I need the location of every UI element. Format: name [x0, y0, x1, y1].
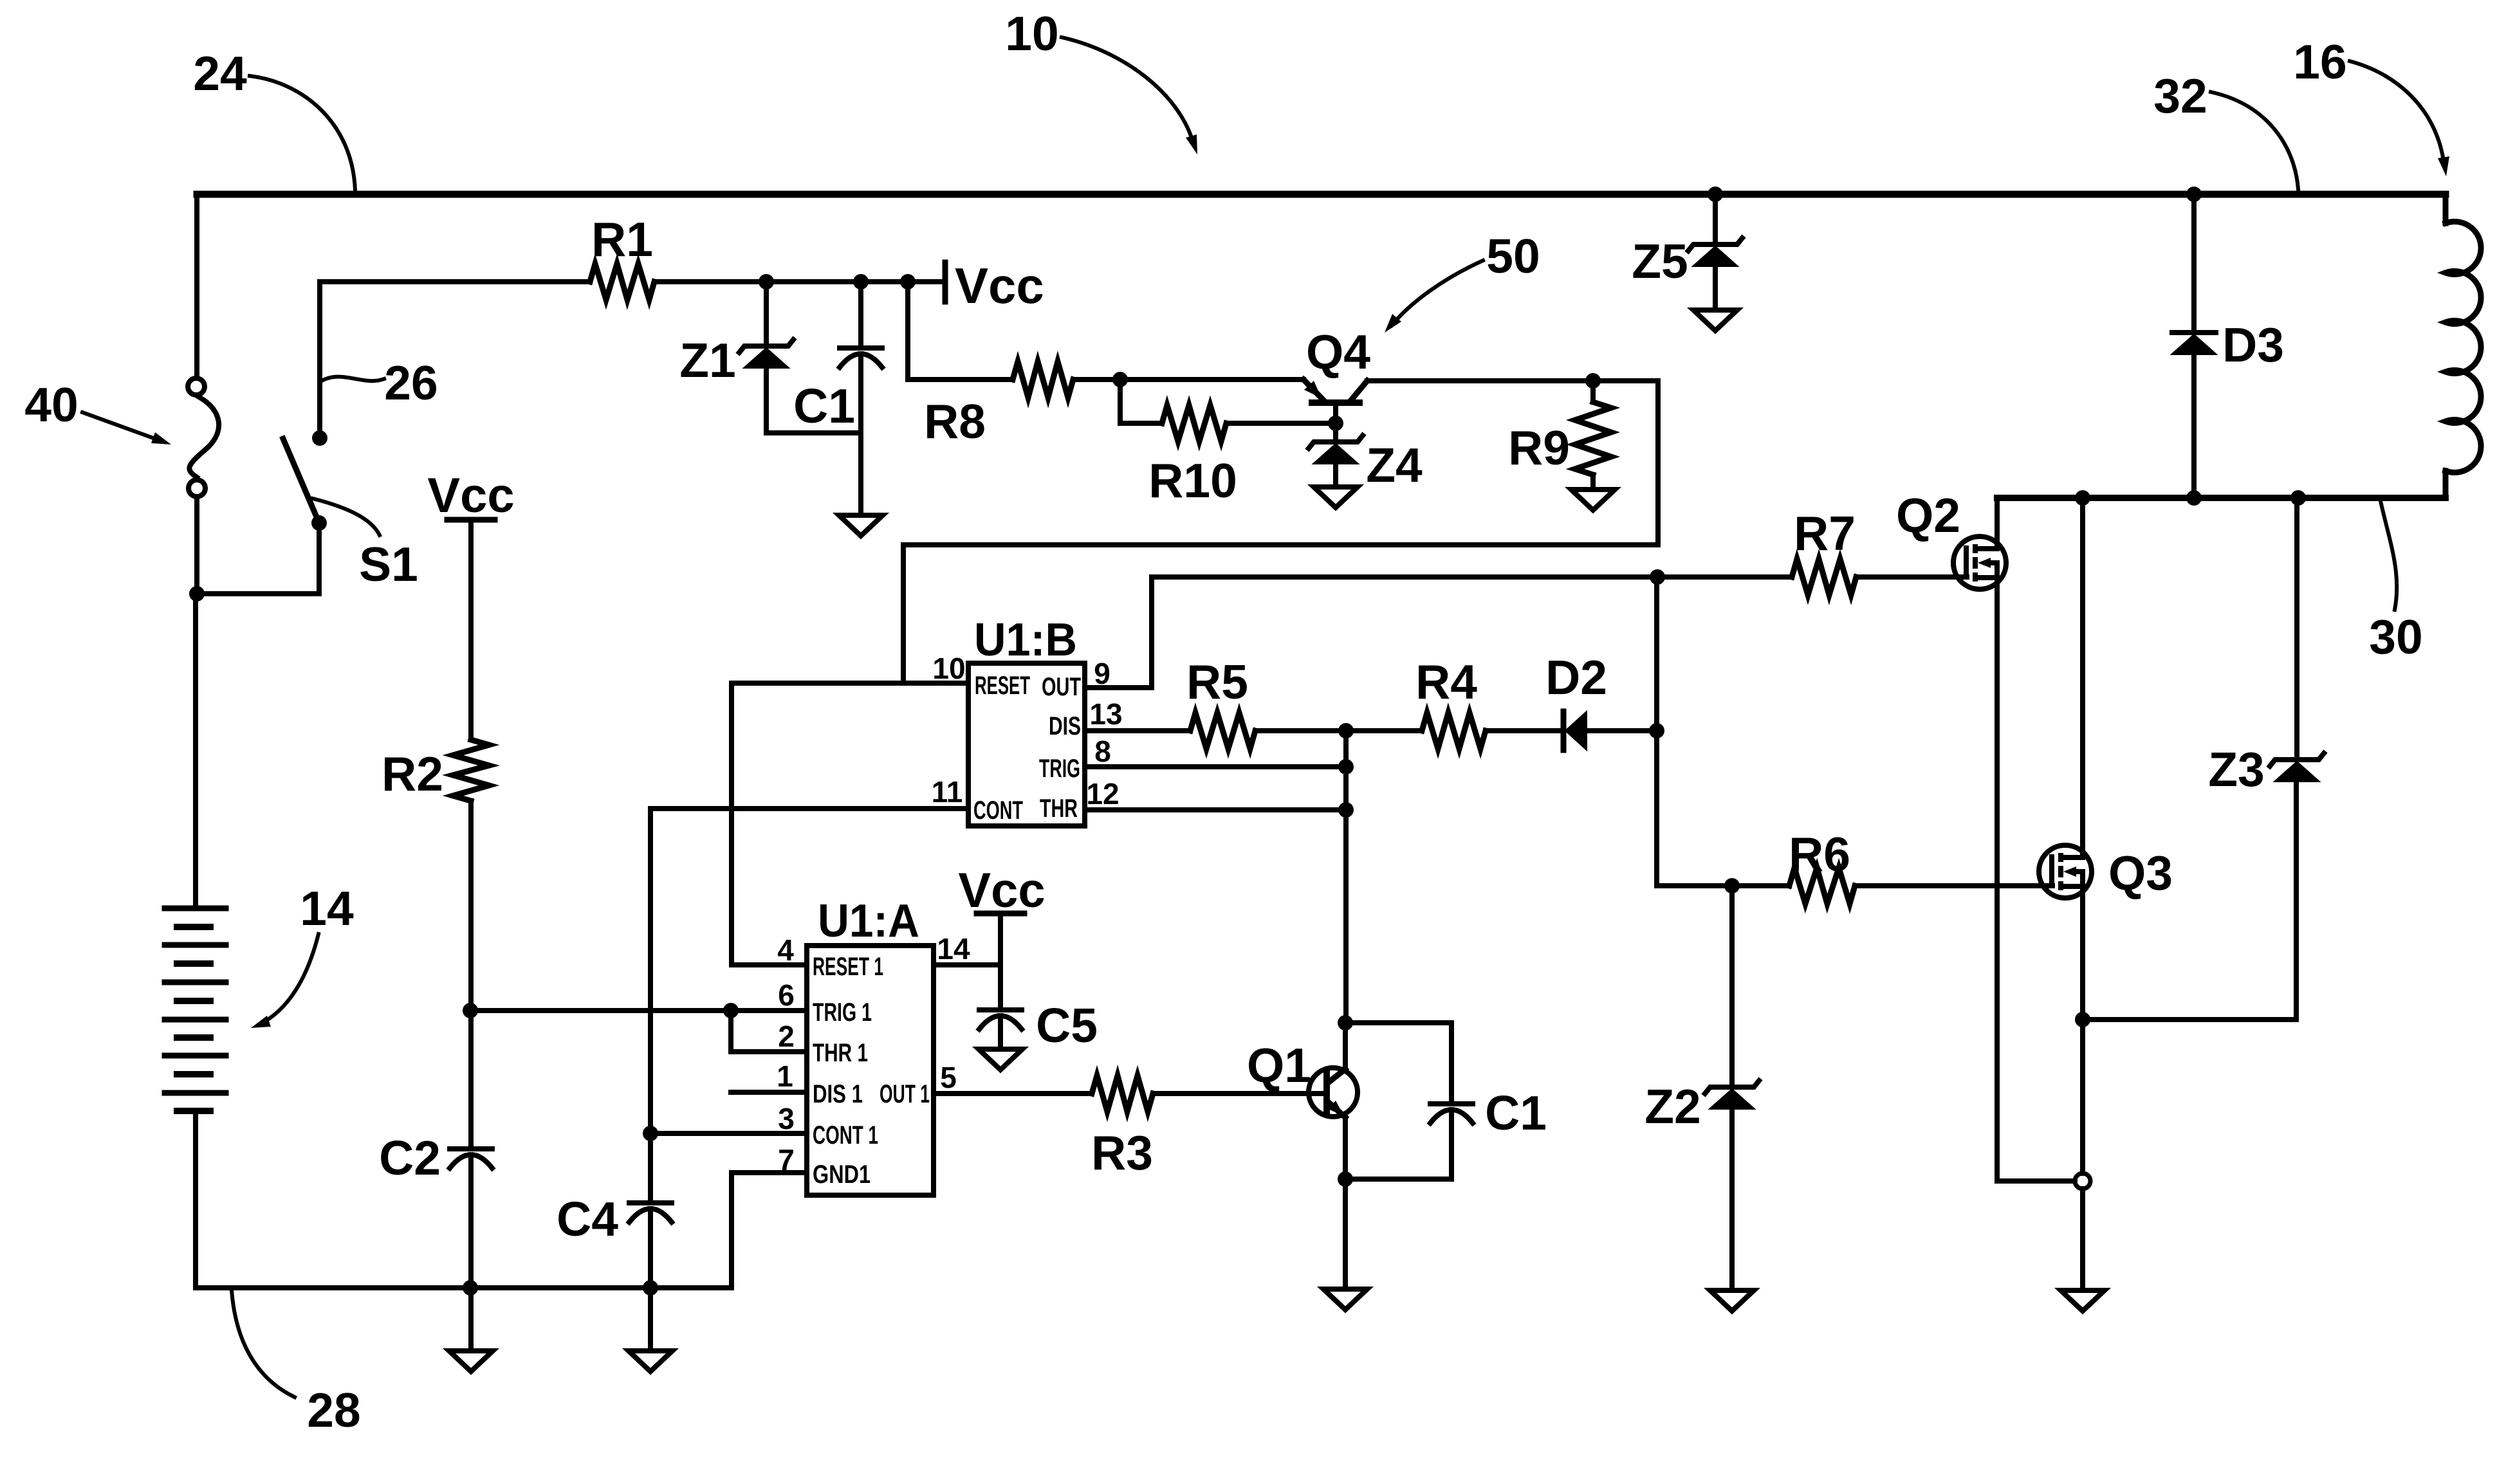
svg-text:RESET 1: RESET 1: [813, 953, 883, 981]
capacitor C1 (Q1): [1430, 1101, 1473, 1106]
svg-text:R7: R7: [1794, 506, 1856, 560]
resistor R7: [1792, 559, 1856, 595]
wire to capacitor C1 right: [1345, 1023, 1451, 1104]
leader 24: [250, 76, 355, 190]
svg-text:CONT 1: CONT 1: [813, 1121, 878, 1150]
node Q1 emitter junction: [1338, 1171, 1353, 1187]
wire to R4: [1346, 728, 1422, 733]
wire C2 to bottom rail: [468, 1155, 474, 1288]
wire Q1 emitter to ground: [1343, 1179, 1348, 1289]
wire C1 bottom to emitter: [1345, 1110, 1451, 1179]
wire switch up to R1 row node 26: [320, 282, 590, 438]
node R10 tap: [1112, 372, 1128, 387]
node D3 bottom on rail: [2186, 490, 2202, 506]
svg-text:Z4: Z4: [1366, 438, 1423, 492]
svg-text:R2: R2: [382, 747, 443, 801]
svg-text:2: 2: [778, 1020, 795, 1053]
resistor R2: [453, 740, 489, 801]
svg-text:Q2: Q2: [1896, 488, 1960, 542]
svg-text:D2: D2: [1545, 650, 1607, 704]
switch S1 blade: [283, 439, 319, 523]
wire to zener Z1: [764, 282, 769, 346]
node Z3 top on rail: [2290, 490, 2306, 506]
node THR junction: [1338, 802, 1354, 818]
node Z1 tap: [759, 274, 774, 289]
ground under Q3/Q2 sources: [2061, 1290, 2105, 1311]
wire down to R10: [1120, 380, 1162, 423]
svg-text:C4: C4: [557, 1192, 618, 1246]
Vcc bar left: [447, 517, 495, 523]
svg-text:11: 11: [932, 775, 963, 809]
svg-text:C5: C5: [1036, 998, 1098, 1052]
svg-text:R3: R3: [1091, 1126, 1153, 1180]
node R8 tap: [900, 274, 916, 289]
node THR1 branch: [723, 1003, 739, 1018]
svg-text:C1: C1: [793, 379, 855, 433]
wire top rail node 24/10 from fuse to coil: [197, 191, 2446, 198]
wire R9 top: [1590, 381, 1596, 402]
switch S1 upper contact: [312, 430, 327, 446]
wire Q4 collector feedback loop to U1:B pin10: [903, 381, 1658, 683]
wire R6 to Q3 gate: [1855, 883, 2052, 888]
svg-text:DIS 1: DIS 1: [813, 1080, 863, 1108]
node Z2 tap: [1724, 878, 1740, 893]
switch S1 lower contact: [311, 515, 327, 531]
wire OUT net down to R6 row: [1654, 577, 1659, 886]
ground under Z4: [1314, 487, 1358, 508]
fuse 40: [188, 378, 205, 395]
wire bottom coil rail node 30: [1997, 495, 2446, 501]
svg-text:DIS: DIS: [1049, 712, 1081, 740]
wire C4 column: [648, 1133, 653, 1203]
svg-text:Q3: Q3: [2108, 846, 2173, 900]
wire U1:B pin11 CONT: [650, 806, 968, 811]
node CONT1/C4: [643, 1126, 658, 1141]
diode D3: [2172, 330, 2216, 335]
wire battery bottom to ground rail: [193, 1111, 198, 1288]
wire RESET column to U1:A pin4: [732, 683, 807, 965]
svg-text:Z3: Z3: [2208, 742, 2265, 796]
svg-text:OUT: OUT: [1042, 673, 1081, 701]
wire U1:A pin7 GND1 to rail: [732, 1173, 807, 1288]
wire R4 to D2: [1486, 728, 1563, 733]
svg-text:D3: D3: [2222, 318, 2284, 372]
leader S1: [313, 499, 380, 535]
svg-text:U1:A: U1:A: [818, 895, 919, 947]
svg-text:THR 1: THR 1: [813, 1039, 868, 1067]
svg-text:8: 8: [1094, 735, 1111, 768]
svg-text:14: 14: [937, 932, 970, 966]
resistor R4: [1422, 713, 1486, 749]
zener Z3: [2270, 753, 2324, 766]
svg-text:GND1: GND1: [813, 1160, 871, 1189]
wire R3 to Q1 base: [1153, 1091, 1324, 1096]
svg-text:TRIG: TRIG: [1039, 755, 1080, 783]
svg-text:24: 24: [193, 46, 247, 100]
svg-text:5: 5: [940, 1061, 957, 1094]
svg-text:R9: R9: [1508, 421, 1570, 475]
svg-text:Q4: Q4: [1306, 325, 1370, 379]
zener Z4: [1309, 435, 1363, 448]
ground under C5: [979, 1049, 1022, 1070]
wire U1:B pin12 THR: [1085, 807, 1346, 812]
node D2 junction: [1649, 723, 1664, 738]
battery 14 plates: [165, 906, 226, 911]
node D3 top: [2186, 187, 2202, 202]
wire R10 to Q4 base: [1226, 421, 1336, 426]
ground under R9: [1571, 490, 1615, 510]
wire U1:B pin8 TRIG: [1085, 764, 1346, 769]
node OUT rail to R7/down: [1650, 569, 1665, 585]
resistor R6: [1789, 868, 1855, 904]
wire node to battery: [193, 594, 198, 908]
Vcc bar C5: [977, 911, 1024, 917]
svg-text:16: 16: [2293, 35, 2346, 89]
svg-text:C1: C1: [1485, 1086, 1547, 1140]
svg-text:1: 1: [777, 1059, 793, 1093]
ground under C1: [839, 515, 883, 536]
wire U1:A pin5 OUT1 to R3: [934, 1091, 1092, 1096]
svg-text:R5: R5: [1186, 655, 1248, 709]
transistor Q1 (NPN): [1309, 1068, 1358, 1117]
transistor Q3 (MOSFET): [2039, 845, 2092, 898]
wire D2 to OUT column: [1590, 728, 1657, 733]
svg-text:6: 6: [778, 978, 795, 1012]
wire column down to Q1 collector: [1343, 731, 1349, 1023]
leader 50 arrow: [1392, 261, 1483, 325]
wire Z2 column: [1729, 886, 1735, 1087]
svg-text:26: 26: [384, 356, 438, 410]
wire left column from rail to fuse: [194, 194, 199, 378]
svg-text:28: 28: [307, 1383, 360, 1437]
ground under Q1: [1323, 1289, 1367, 1310]
wire D3 to bottom coil rail: [2191, 354, 2197, 498]
wire Z2 to ground: [1729, 1109, 1735, 1290]
svg-text:R4: R4: [1415, 655, 1477, 709]
wire Q4 collector to corner: [1367, 378, 1658, 383]
wire Q2 source down: [1997, 578, 2075, 1181]
op-amp U1:B box: [968, 663, 1085, 826]
wire U1:A pin1 DIS1 stub: [731, 1090, 807, 1095]
wire to capacitor C1: [858, 282, 863, 348]
resistor R5: [1190, 713, 1255, 749]
wire R7 to Q2 gate: [1856, 574, 1967, 580]
svg-text:13: 13: [1089, 697, 1122, 731]
wire Vcc node down to R8 row: [908, 282, 1013, 380]
wire CONT column down to U1:A pin3: [650, 809, 807, 1133]
wire U1:B pin10 row: [732, 681, 968, 686]
node TRIG junction: [1338, 759, 1354, 774]
wire R7 row from OUT node to R7: [1657, 574, 1792, 580]
node Q1 collector junction: [1338, 1015, 1353, 1031]
svg-text:Q1: Q1: [1247, 1038, 1311, 1092]
wire Q3 drain up to rail: [2080, 498, 2085, 857]
wire top rail to D3: [2191, 194, 2197, 333]
svg-text:4: 4: [777, 933, 794, 967]
inductor coil 16/30: [2443, 194, 2449, 223]
wire Z5 to ground: [1713, 266, 1718, 310]
resistor R1: [590, 264, 654, 300]
wire Z1 to C1 bottom: [766, 368, 861, 433]
wire C5 to ground: [998, 1016, 1003, 1049]
svg-text:30: 30: [2369, 610, 2422, 664]
leader 10 arrow: [1062, 37, 1193, 144]
ground under C2: [449, 1351, 493, 1371]
leader 32: [2211, 92, 2298, 189]
wire C2 ground stub: [468, 1288, 474, 1351]
wire U1:B pin9 OUT up and right: [1085, 577, 1657, 688]
svg-text:CONT: CONT: [973, 796, 1023, 825]
wire U1:B pin13 DIS to R5: [1085, 728, 1190, 733]
leader 40 arrow: [82, 412, 162, 441]
svg-text:THR: THR: [1040, 794, 1078, 823]
svg-text:50: 50: [1486, 229, 1540, 283]
svg-text:Z1: Z1: [679, 333, 736, 387]
svg-text:9: 9: [1094, 657, 1110, 690]
capacitor C2: [450, 1146, 492, 1151]
node Q3 drain on rail: [2075, 490, 2090, 506]
node source tie open circle: [2075, 1173, 2090, 1189]
transistor Q2 (MOSFET): [1953, 536, 2006, 589]
resistor R8: [1013, 362, 1073, 398]
wire R2 to C2: [468, 801, 474, 1149]
wire Z3 to rail: [2294, 498, 2299, 760]
ground under Z2: [1710, 1290, 1754, 1311]
svg-text:Vcc: Vcc: [955, 257, 1044, 314]
leader 26: [322, 377, 384, 381]
svg-text:12: 12: [1086, 777, 1119, 811]
node R9 tap: [1585, 373, 1601, 389]
svg-text:Vcc: Vcc: [427, 468, 514, 523]
wire R9 to ground: [1590, 475, 1596, 490]
svg-text:10: 10: [1005, 6, 1058, 60]
node Z5 on top rail: [1708, 187, 1723, 202]
svg-text:C2: C2: [379, 1131, 441, 1185]
wire R5 to column: [1255, 728, 1346, 733]
node C4 ground rail: [643, 1280, 658, 1296]
wire Z4 to ground: [1333, 464, 1338, 487]
wire Q4 base to Z4: [1333, 423, 1338, 442]
node Q4 base junction: [1328, 416, 1343, 431]
resistor R3: [1092, 1076, 1153, 1112]
capacitor C4: [629, 1200, 672, 1205]
leader 28: [232, 1290, 295, 1397]
svg-text:40: 40: [24, 378, 78, 432]
wire R8 to Q4 emitter: [1073, 377, 1304, 382]
wire THR1 drop: [731, 1011, 807, 1052]
capacitor C5: [979, 1007, 1022, 1012]
wire Vcc to R2: [468, 520, 474, 740]
wire R1 to Vcc terminal: [654, 279, 943, 284]
Vcc terminal tick: [943, 262, 948, 302]
wire TRIG1 rail: [470, 1008, 807, 1013]
svg-text:R10: R10: [1148, 453, 1237, 508]
wire Z3 bottom row: [2083, 782, 2296, 1020]
zener Z1: [739, 340, 793, 353]
op-amp U1:A box: [807, 946, 934, 1195]
leader 16 arrow: [2350, 61, 2444, 166]
wire C4 to bottom rail: [648, 1209, 653, 1288]
svg-text:R8: R8: [924, 394, 986, 448]
wire bottom ground rail: [196, 1285, 732, 1290]
wire Q3 source down: [2080, 886, 2085, 1173]
wire U1:A pin14 to Vcc: [934, 962, 1000, 967]
wire node to switch bottom: [197, 523, 319, 594]
svg-text:14: 14: [300, 881, 354, 935]
zener Z2: [1705, 1081, 1759, 1094]
svg-text:Vcc: Vcc: [958, 863, 1045, 918]
wire Q2 drain: [1995, 498, 2000, 549]
wire C1 to ground: [858, 354, 863, 515]
node junction battery/switch: [189, 586, 205, 601]
ground under Z5: [1693, 310, 1737, 331]
svg-text:3: 3: [778, 1102, 795, 1135]
leader 14 arrow: [260, 934, 318, 1024]
capacitor C1 (top): [840, 345, 882, 351]
ground under C4: [629, 1351, 672, 1371]
node C1 tap: [853, 274, 869, 289]
leader 30: [2381, 501, 2397, 610]
svg-text:R6: R6: [1789, 827, 1850, 881]
node TRIG1 rail left: [463, 1003, 478, 1018]
svg-text:RESET: RESET: [975, 672, 1030, 700]
transistor Q4 (PNP): [1304, 380, 1323, 400]
resistor R9: [1575, 402, 1611, 475]
wire fuse to node at battery top: [194, 497, 199, 594]
node C2 ground rail: [463, 1280, 478, 1296]
wire below open circle to ground: [2080, 1189, 2085, 1290]
svg-text:10: 10: [932, 652, 965, 685]
node R5/R4 junction: [1338, 723, 1354, 738]
wire Vcc bar down to C5: [998, 913, 1003, 1010]
zener Z5: [1688, 238, 1742, 251]
svg-text:TRIG 1: TRIG 1: [813, 998, 872, 1027]
svg-text:32: 32: [2153, 69, 2207, 123]
svg-text:Z5: Z5: [1632, 234, 1688, 288]
resistor R10: [1162, 405, 1226, 441]
svg-text:U1:B: U1:B: [974, 614, 1077, 666]
wire C4 ground stub: [648, 1288, 653, 1351]
svg-text:R1: R1: [591, 212, 653, 266]
wire to zener Z5: [1713, 194, 1718, 244]
svg-text:Z2: Z2: [1645, 1079, 1701, 1133]
svg-text:OUT 1: OUT 1: [880, 1080, 930, 1108]
diode D2: [1561, 711, 1567, 750]
wire R6 row: [1657, 883, 1789, 888]
node Q3 source / Z3 bottom: [2075, 1012, 2090, 1027]
svg-text:S1: S1: [359, 537, 418, 591]
